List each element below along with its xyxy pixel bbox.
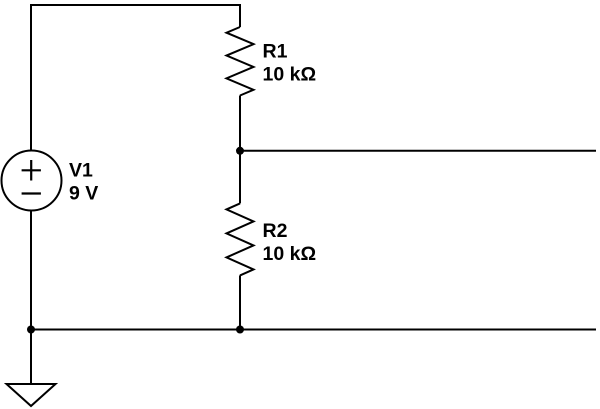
wire V1 bottom to ground node bbox=[30, 211, 32, 330]
wire R1 bottom to node A bbox=[239, 96, 241, 151]
wire node A to right edge bbox=[240, 150, 596, 152]
resistor R2 bbox=[227, 203, 254, 275]
svg-text:9 V: 9 V bbox=[69, 183, 98, 205]
svg-text:10 kΩ: 10 kΩ bbox=[263, 243, 317, 265]
wire ground node to ground symbol bbox=[30, 330, 32, 385]
wire top loop: V1 top to R1 top bbox=[31, 5, 240, 151]
voltage source V1 circle bbox=[2, 151, 62, 211]
bottom wire to right edge bbox=[31, 329, 596, 331]
V1 minus sign bbox=[22, 192, 41, 194]
wire node A to R2 top bbox=[239, 151, 241, 204]
bottom node junction dot at R2 bbox=[236, 326, 244, 334]
ground node junction dot bbox=[27, 326, 35, 334]
resistor R1 bbox=[227, 27, 254, 96]
V1 plus sign bbox=[22, 160, 41, 181]
svg-text:10 kΩ: 10 kΩ bbox=[263, 64, 317, 86]
svg-text:R1: R1 bbox=[263, 41, 288, 63]
node A junction dot bbox=[236, 147, 244, 155]
svg-text:R2: R2 bbox=[263, 220, 288, 242]
wire R2 bottom to bottom node bbox=[239, 275, 241, 329]
svg-text:V1: V1 bbox=[69, 160, 93, 182]
ground bbox=[7, 384, 56, 406]
